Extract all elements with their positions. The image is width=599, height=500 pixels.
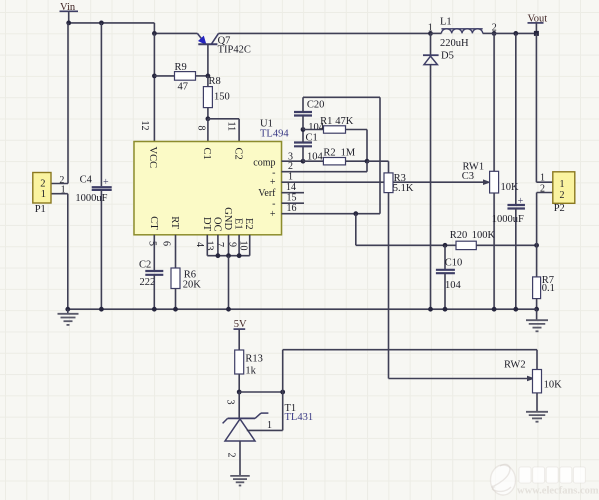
wire R2 right lead (346, 160, 368, 162)
wire R8 top lead (207, 76, 209, 87)
wire R13 bottom lead (238, 374, 240, 392)
junction gnd C10 (443, 307, 448, 312)
svg-text:5.1K: 5.1K (393, 183, 414, 194)
svg-text:47: 47 (178, 81, 189, 92)
junction switch node (428, 31, 433, 36)
svg-text:R20: R20 (450, 230, 468, 241)
pin number L1-2 (492, 22, 497, 33)
svg-text:R8: R8 (209, 76, 221, 87)
junction C4 top (99, 21, 104, 26)
svg-text:1: 1 (288, 171, 293, 182)
pin number P1-2 (59, 175, 64, 186)
svg-text:GND: GND (222, 207, 233, 230)
wire ref node tie (239, 391, 283, 393)
watermark url (517, 486, 599, 497)
U1 pin name plus1 (270, 177, 276, 188)
svg-text:C2: C2 (233, 148, 244, 160)
svg-text:1k: 1k (245, 366, 256, 377)
svg-text:7: 7 (214, 242, 225, 247)
svg-text:1000uF: 1000uF (492, 214, 524, 225)
wire T1 ref wire (247, 392, 283, 430)
wire T1 anode lead (239, 441, 241, 476)
pin number 3 (288, 151, 293, 162)
svg-text:15: 15 (287, 192, 297, 203)
wire C3 top lead (515, 33, 517, 205)
wire C20 top loop (303, 97, 380, 213)
junction R9-R8 (206, 74, 211, 79)
pin number 6 (161, 241, 172, 246)
wire C10 bottom lead (444, 273, 446, 309)
resistor R3 (384, 173, 414, 194)
svg-text:C4: C4 (80, 175, 93, 186)
junction Vout node (534, 31, 539, 36)
junction ref node (237, 390, 242, 395)
wire RW1 top lead (493, 33, 495, 171)
svg-text:2: 2 (288, 161, 293, 172)
svg-text:E1: E1 (233, 218, 244, 230)
wire pin15 stub (282, 202, 305, 204)
junction C1-C20-R1 (301, 127, 306, 132)
svg-text:L1: L1 (440, 16, 452, 27)
svg-text:150: 150 (214, 92, 230, 103)
wire C2 bottom lead (153, 275, 155, 309)
wire C3 bottom lead (515, 209, 517, 310)
svg-text:47K: 47K (335, 116, 354, 127)
junction L1 out (492, 31, 497, 36)
svg-text:D5: D5 (441, 51, 454, 62)
wire bottom tie (207, 255, 249, 257)
wire branch down to R20 row (356, 214, 456, 246)
svg-text:DT: DT (201, 217, 212, 232)
svg-text:4: 4 (194, 242, 205, 247)
capacitor C1 (294, 132, 324, 162)
junction R9 left (152, 74, 157, 79)
wire R7 top lead (536, 245, 538, 277)
wire output rail (494, 32, 536, 34)
junction error amp node (365, 159, 370, 164)
junction Vin stub (66, 21, 71, 26)
svg-text:TL494: TL494 (260, 129, 289, 140)
wire R9 right lead (196, 75, 208, 77)
wire R3 bottom to RW2 wiper (389, 193, 534, 381)
svg-text:5V: 5V (234, 319, 247, 330)
svg-text:12: 12 (139, 121, 150, 131)
svg-text:5: 5 (147, 241, 158, 246)
pin number P2-1 (540, 172, 545, 183)
resistor R7 (533, 275, 555, 299)
junction C10 top (443, 243, 448, 248)
pin number 8 (196, 126, 207, 131)
svg-text:220uH: 220uH (440, 38, 469, 49)
wire ground rail (68, 308, 537, 310)
wire R9 left lead (154, 75, 174, 77)
svg-text:1: 1 (61, 185, 66, 196)
wire R6 bottom lead (175, 289, 177, 310)
svg-text:6: 6 (161, 241, 172, 246)
pin number 12 (139, 121, 150, 131)
wire RW2 bottom lead (536, 393, 538, 412)
wire Vin rail to Q7 emitter (154, 32, 197, 34)
transistor Q7 (197, 33, 250, 55)
U1 pin name VCC (147, 147, 158, 169)
wire R1 left lead (303, 129, 324, 131)
pin number P2-2 (540, 184, 545, 195)
ground RW2 (526, 412, 548, 422)
svg-text:+: + (270, 209, 276, 220)
svg-text:10K: 10K (544, 379, 563, 390)
junction pin7 (226, 253, 231, 258)
svg-text:11: 11 (225, 122, 236, 132)
wire pin10 stub (249, 235, 251, 256)
svg-text:R9: R9 (175, 62, 187, 73)
wire R20 right lead (476, 244, 536, 246)
svg-text:TL431: TL431 (285, 412, 314, 423)
svg-text:RW2: RW2 (504, 359, 526, 370)
watermark text (519, 467, 585, 483)
inductor L1 (440, 16, 483, 49)
wire P2 pin2 to R7 (537, 193, 553, 246)
U1 designator (260, 119, 289, 140)
wire C10 top lead (444, 245, 446, 269)
svg-text:222: 222 (140, 277, 156, 288)
svg-text:RT: RT (169, 216, 180, 229)
svg-text:C2: C2 (139, 260, 151, 271)
svg-text:2: 2 (226, 453, 237, 458)
svg-text:8: 8 (196, 126, 207, 131)
svg-text:R1: R1 (320, 116, 332, 127)
U1 pin name RT (169, 216, 180, 229)
pin number T1-2 (226, 453, 237, 458)
svg-text:20K: 20K (183, 279, 202, 290)
svg-text:1: 1 (41, 189, 46, 200)
svg-text:C1: C1 (201, 148, 212, 160)
junction ref node right (280, 390, 285, 395)
pin number P1-1 (61, 185, 66, 196)
svg-text:Vin: Vin (60, 2, 76, 13)
potentiometer RW2 (504, 359, 562, 393)
svg-text:R2: R2 (323, 147, 335, 158)
U1 pin name C1 (201, 148, 212, 160)
svg-text:www.elecfans.com: www.elecfans.com (517, 486, 599, 497)
transistor T1 TL431 (223, 403, 313, 441)
wire P1 pin2 to Vin (51, 23, 68, 184)
wire pin5 to C2 (153, 235, 155, 271)
wire GND drop (228, 256, 230, 310)
svg-text:TIP42C: TIP42C (218, 45, 251, 56)
svg-text:100K: 100K (472, 230, 496, 241)
U1 pin name C2 (233, 148, 244, 160)
pin number 14 (286, 182, 296, 193)
capacitor C4 (75, 175, 111, 204)
pin number 7 (214, 242, 225, 247)
svg-text:P1: P1 (35, 204, 46, 215)
capacitor C10 (436, 258, 462, 291)
wire pin14 stub (282, 192, 305, 194)
junction pin13 (216, 253, 221, 258)
junction VCC column (152, 31, 157, 36)
svg-text:-: - (272, 199, 275, 210)
svg-text:C1: C1 (306, 132, 318, 143)
svg-text:Vout: Vout (528, 13, 548, 24)
wire R7 bottom lead (536, 299, 538, 310)
pin number 9 (227, 242, 238, 247)
svg-text:1M: 1M (341, 147, 356, 158)
junction pin3-C1-R2 (301, 159, 306, 164)
resistor R1 (320, 116, 354, 133)
junction gnd C4 (99, 307, 104, 312)
pin number 1 (288, 171, 293, 182)
U1 pin name DT (201, 217, 212, 232)
wire pin2 feedback (282, 161, 368, 172)
pin number 4 (194, 242, 205, 247)
svg-text:1: 1 (560, 179, 565, 190)
power port Vout (528, 13, 548, 33)
U1 pin name comp (253, 158, 275, 169)
svg-text:2: 2 (560, 190, 565, 201)
junction C3 top (513, 31, 518, 36)
wire R8 bottom lead (207, 108, 209, 119)
svg-text:R13: R13 (245, 354, 263, 365)
svg-text:104: 104 (445, 280, 462, 291)
wire Vin rail upper (69, 22, 155, 24)
svg-text:13: 13 (204, 241, 215, 251)
diode D5 (423, 51, 454, 65)
junction gnd U1 (226, 307, 231, 312)
wire pin13 stub (217, 235, 219, 256)
wire D5 top lead (430, 33, 432, 55)
svg-text:+: + (103, 177, 109, 188)
svg-text:C10: C10 (445, 258, 463, 269)
resistor R13 (235, 350, 263, 377)
svg-text:+: + (518, 196, 524, 207)
wire RW1 bottom lead (493, 193, 495, 309)
junction gnd R6 (173, 307, 178, 312)
wire P2 pin1 stub (536, 181, 552, 183)
wire pin7 stub (228, 235, 230, 256)
svg-text:CT: CT (148, 216, 159, 230)
svg-text:C20: C20 (307, 100, 325, 111)
svg-text:14: 14 (286, 182, 296, 193)
U1 pin name minus1 (272, 167, 275, 178)
wire pin1 to RW1 wiper (282, 180, 490, 184)
wire C4 bottom lead (100, 190, 102, 309)
wire to pin 11 (208, 119, 239, 142)
pin number L1-1 (428, 22, 433, 33)
svg-text:OC: OC (211, 217, 222, 232)
U1 pin name plus2 (270, 209, 276, 220)
U1 pin name E2 (243, 218, 254, 230)
pin number 16 (287, 203, 297, 214)
junction pin16 branch (353, 211, 358, 216)
wire C4 top lead (100, 23, 102, 186)
pin number 11 (225, 122, 236, 132)
wire C1 bottom lead (302, 146, 304, 161)
ground T1 (230, 476, 250, 486)
capacitor C3 (492, 196, 525, 225)
wire pin6 to R6 (175, 235, 177, 268)
op-amp U1 TL494 body (134, 142, 282, 235)
wire Q7 collector rail (219, 32, 431, 34)
svg-text:1: 1 (267, 420, 272, 431)
U1 pin name OC (211, 217, 222, 232)
wire L1 leads (431, 32, 495, 34)
U1 pin name CT (148, 216, 159, 230)
connector P1 (33, 173, 51, 216)
wire R2 left lead (303, 160, 323, 162)
ground output (536, 309, 538, 320)
pin number 15 (287, 192, 297, 203)
junction gnd C2 (152, 307, 157, 312)
junction R8 bottom (206, 116, 211, 121)
svg-text:VCC: VCC (147, 147, 158, 169)
watermark logo (491, 464, 516, 495)
U1 pin name E1 (233, 218, 244, 230)
ground main (67, 309, 69, 313)
svg-text:2: 2 (540, 184, 545, 195)
potentiometer RW1 (462, 161, 519, 193)
wire R1 right lead (346, 130, 368, 162)
svg-text:P2: P2 (554, 203, 565, 214)
svg-text:C3: C3 (462, 171, 474, 182)
svg-text:0.1: 0.1 (542, 283, 555, 294)
wire Vout column (535, 33, 537, 182)
capacitor C2 (139, 260, 163, 289)
svg-text:16: 16 (287, 203, 297, 214)
wire D5 bottom lead (430, 65, 432, 310)
U1 pin name Verf (258, 188, 276, 199)
svg-text:+: + (270, 177, 276, 188)
resistor R9 (175, 62, 196, 92)
connector P2 (553, 172, 575, 214)
junction gnd RW1 (492, 307, 497, 312)
pin number T1-3 (225, 400, 236, 405)
power port Vin (60, 2, 79, 23)
pin number 10 (238, 241, 249, 251)
wire VCC column to pin 12 (153, 33, 155, 141)
wire P1 pin1 to ground (51, 194, 68, 310)
wire Q7 base to R8 (207, 44, 209, 76)
pin number 5 (147, 241, 158, 246)
resistor R2 (323, 147, 355, 165)
wire pin4 stub (206, 235, 208, 256)
svg-text:2: 2 (40, 179, 45, 190)
pin number T1-1 (267, 420, 272, 431)
capacitor C20 (294, 100, 325, 133)
resistor R8 (203, 76, 229, 108)
resistor R6 (171, 268, 201, 290)
wire pin9 stub (238, 235, 240, 256)
pin number 13 (204, 241, 215, 251)
resistor R20 (450, 230, 496, 249)
svg-text:1000uF: 1000uF (75, 193, 107, 204)
wire T1 cathode lead (238, 392, 240, 418)
wire C20 bottom lead (302, 116, 304, 130)
wire node to R3 top (367, 161, 389, 173)
junction R20-R7-P2 (534, 243, 539, 248)
U1 pin name minus2 (272, 199, 275, 210)
wire pin3 stub (282, 160, 304, 162)
junction gnd D5 (428, 307, 433, 312)
wire Vin rail step down (153, 23, 155, 34)
wire C1 top lead (302, 130, 304, 143)
wire ref to RW2 top (283, 350, 537, 392)
junction gnd R7 (534, 307, 539, 312)
wire pin16 row (282, 213, 381, 215)
power port 5V (234, 319, 248, 350)
pin number 2 (288, 161, 293, 172)
junction gnd P1 (65, 307, 70, 312)
wire pin8 drop (207, 119, 209, 142)
svg-text:3: 3 (225, 400, 236, 405)
svg-text:1: 1 (540, 172, 545, 183)
junction pin9 (237, 253, 242, 258)
U1 pin name GND (222, 207, 233, 230)
svg-text:E2: E2 (243, 218, 254, 230)
junction gnd C3 (513, 307, 518, 312)
